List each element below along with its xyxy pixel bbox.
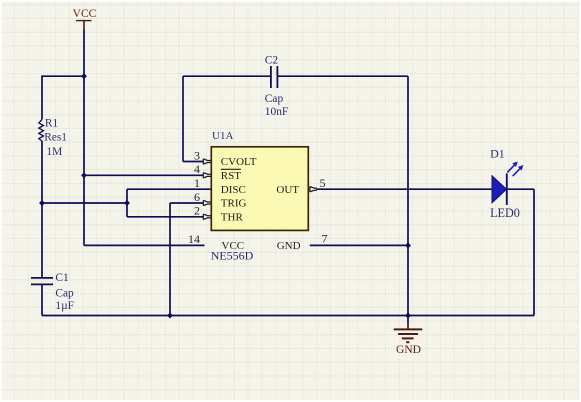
junction node A / DISC-THR (127,203) (124, 200, 130, 206)
svg-text:1µF: 1µF (55, 300, 74, 312)
wire right rail x=408 (C2 to ground bus) (407, 76, 409, 315)
wire C2 left horizontal (183, 75, 270, 77)
svg-text:NE556D: NE556D (211, 249, 254, 263)
svg-text:THR: THR (221, 212, 244, 224)
pin 6 input arrow (203, 200, 210, 205)
wire OUT horizontal to LED (316, 188, 492, 190)
svg-text:R1: R1 (45, 117, 59, 129)
capacitor C1 (31, 272, 74, 312)
svg-text:OUT: OUT (276, 184, 299, 196)
wire C1 bottom lead (41, 285, 43, 316)
junction node A left (42,203) (39, 200, 45, 206)
junction pin7 / right rail (408,245) (405, 242, 411, 248)
svg-text:D1: D1 (490, 146, 505, 160)
ground symbol GND (394, 316, 423, 356)
svg-text:Cap: Cap (265, 93, 284, 105)
pin 4 input arrow (203, 173, 210, 178)
wire CVOLT horizontal to pin 3 (183, 161, 203, 163)
emission arrow 1 (507, 164, 515, 173)
wire VCC rail vertical (VCC symbol down to pin 14 row) (83, 30, 85, 246)
svg-text:U1A: U1A (212, 130, 233, 142)
svg-text:1: 1 (194, 176, 200, 190)
svg-text:VCC: VCC (73, 8, 97, 20)
wire TRIG vertical x=170 (169, 203, 171, 316)
wire DISC horizontal to pin 1 (127, 188, 211, 190)
wire C2 right horizontal (277, 75, 408, 77)
wire RST horizontal to pin 4 (84, 174, 203, 176)
IC U1A NE556D body (211, 130, 308, 230)
junction TRIG / ground bus (170,315) (167, 313, 173, 319)
wire CVOLT vertical x=183 (182, 76, 184, 161)
LED triangle (492, 176, 507, 203)
wire DISC-THR vertical x=127 (126, 189, 128, 217)
wire THR horizontal to pin 2 (127, 216, 203, 218)
pin 2 input arrow (203, 214, 210, 219)
svg-text:5: 5 (320, 176, 326, 190)
wire LED drop vertical x=534 (533, 189, 535, 315)
svg-text:4: 4 (194, 162, 200, 176)
svg-text:10nF: 10nF (265, 106, 288, 118)
wire LED cathode to corner (507, 188, 534, 190)
junction VCC rail / VCC branch (84,76) (81, 73, 87, 79)
svg-text:RST: RST (221, 170, 241, 182)
svg-text:7: 7 (322, 232, 328, 246)
svg-text:2: 2 (194, 204, 200, 218)
svg-text:GND: GND (277, 240, 301, 252)
emission arrow 2 (513, 168, 521, 177)
wire left rail lower (R1 to C1) (41, 141, 43, 278)
svg-text:C1: C1 (55, 272, 69, 284)
resistor R1 (39, 117, 67, 157)
junction VCC rail / RST (84,175) (81, 172, 87, 178)
svg-text:1M: 1M (46, 146, 62, 158)
svg-text:6: 6 (194, 190, 200, 204)
svg-text:Res1: Res1 (44, 132, 67, 144)
junction right rail / ground bus (408,315) (405, 313, 411, 319)
wire pin 14 VCC horizontal (84, 244, 205, 246)
svg-text:14: 14 (188, 232, 200, 246)
wire GND pin 7 horizontal (310, 244, 408, 246)
svg-text:TRIG: TRIG (221, 198, 247, 210)
pin 5 output arrow (310, 187, 317, 192)
wire left rail upper (down to R1) (41, 75, 43, 119)
svg-text:C2: C2 (265, 55, 279, 67)
LED cathode bar (506, 174, 508, 206)
svg-text:CVOLT: CVOLT (221, 156, 257, 168)
wire ground bus horizontal y=315.5 (42, 315, 534, 317)
wire TRIG horizontal to pin 6 (170, 202, 203, 204)
wire VCC branch horizontal y=76 to left rail (42, 75, 84, 77)
wire node A horizontal y=203 (R1/C1 node to DISC/THR) (42, 202, 127, 204)
capacitor C2 (265, 55, 288, 118)
RST overbar (221, 168, 241, 170)
power port VCC (73, 8, 97, 30)
svg-text:DISC: DISC (221, 184, 246, 196)
pin 3 input arrow (203, 159, 210, 164)
LED D1 (490, 146, 523, 220)
svg-text:3: 3 (194, 148, 200, 162)
svg-text:Cap: Cap (55, 288, 74, 300)
svg-text:LED0: LED0 (490, 206, 520, 220)
svg-text:GND: GND (396, 344, 421, 356)
